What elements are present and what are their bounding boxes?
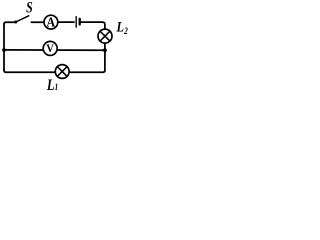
ammeter A (44, 15, 58, 30)
wire middle (4, 49, 105, 51)
battery cell (76, 17, 80, 27)
lamp L2 (98, 29, 112, 43)
wire switch to ammeter (31, 21, 44, 23)
wire right vertical (104, 43, 106, 70)
svg-text:A: A (46, 15, 55, 30)
wire bottom (4, 70, 105, 72)
wire ammeter to battery (58, 21, 74, 23)
svg-text:S: S (26, 0, 33, 17)
wire left vertical (3, 24, 5, 71)
wire battery to top-right corner (81, 22, 105, 29)
junction dot left (2, 48, 6, 52)
lamp L1 (55, 65, 69, 79)
wire top-left segment (4, 22, 16, 24)
svg-text:V: V (46, 43, 54, 56)
voltmeter V (43, 41, 57, 55)
switch S (14, 16, 29, 24)
junction dot right (103, 48, 107, 52)
